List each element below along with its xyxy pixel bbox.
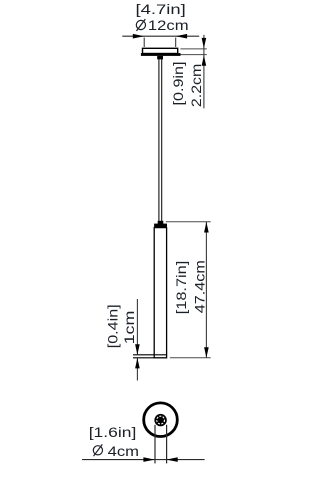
tube bottom disc line [133, 354, 167, 356]
arrow down to disc top [135, 344, 140, 355]
extension tick left [143, 38, 145, 47]
dimension line diameter 4cm [82, 459, 205, 461]
arrow up to disc bottom [135, 358, 140, 369]
diameter symbol for 12cm [136, 19, 145, 31]
arrow up tube top [204, 222, 209, 233]
arrow up to canopy bottom [202, 55, 207, 65]
svg-text:12cm: 12cm [148, 18, 189, 33]
extension line tube bottom [170, 357, 211, 359]
svg-text:[4.7in]: [4.7in] [135, 2, 185, 17]
extension line canopy bottom [180, 54, 206, 56]
svg-text:4cm: 4cm [108, 444, 139, 459]
dimension line diameter 12cm [122, 35, 199, 37]
bottom view tube blob [154, 414, 166, 426]
extension line right below circle [166, 425, 168, 464]
svg-text:1cm: 1cm [122, 311, 138, 345]
tube top cap [154, 224, 167, 228]
dimension line 1cm upper segment [136, 299, 138, 355]
dimension line 2.2cm vertical [203, 35, 205, 109]
svg-text:47.4cm: 47.4cm [192, 260, 208, 313]
arrow down tube bottom [204, 347, 209, 358]
svg-text:2.2cm: 2.2cm [189, 64, 205, 107]
arrow left (points right) [133, 34, 144, 39]
arrow down to canopy top [202, 38, 207, 48]
arrow right (points left) [176, 34, 187, 39]
cord grip nipple under canopy [157, 56, 163, 60]
dimension line 1cm lower segment [136, 358, 138, 381]
svg-text:[0.9in]: [0.9in] [171, 62, 187, 106]
disc bottom extension [133, 357, 154, 359]
svg-text:[0.4in]: [0.4in] [105, 304, 121, 348]
dimension line 47.4cm vertical [205, 222, 207, 358]
extension line tube top [166, 221, 211, 223]
cord grip at tube top [158, 221, 164, 224]
extension line canopy top [180, 48, 206, 50]
diameter symbol for 4cm [93, 444, 102, 456]
bottom view inner white ring [157, 416, 165, 424]
extension tick right [175, 38, 177, 47]
canopy bottom flange [141, 53, 181, 56]
bottom view outer circle (canopy) [144, 403, 178, 437]
svg-text:[1.6in]: [1.6in] [89, 425, 137, 440]
wire (suspension cable, double line) [158, 59, 160, 221]
tube body [154, 228, 166, 358]
canopy body (side view) [143, 48, 178, 53]
arrow right of 4cm (points left) [166, 457, 177, 462]
svg-text:[18.7in]: [18.7in] [174, 261, 190, 314]
extension line left below circle [154, 425, 156, 464]
arrow left of 4cm (points right) [143, 457, 154, 462]
